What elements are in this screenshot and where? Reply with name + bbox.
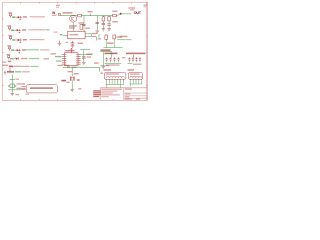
svg-text:OUT: OUT [134,11,142,15]
